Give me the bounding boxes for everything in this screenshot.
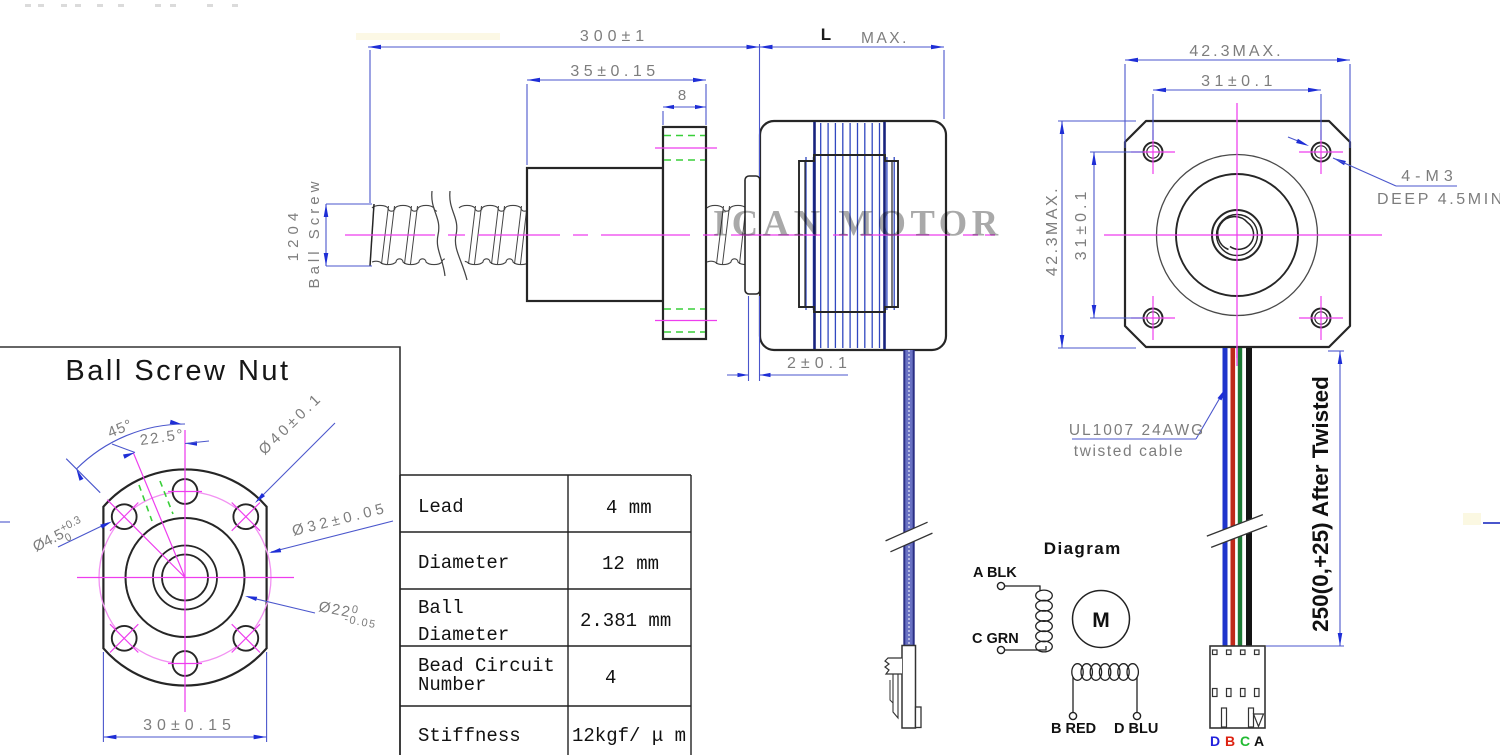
svg-text:12 mm: 12 mm <box>602 553 659 575</box>
wire A to coil <box>1005 586 1041 591</box>
dimension L MAX line <box>760 46 945 48</box>
nut hole tick top <box>168 491 202 493</box>
faint yellow blob right edge <box>1463 513 1481 525</box>
front view horizontal centerline <box>1104 234 1382 236</box>
terminal A <box>997 582 1004 589</box>
nut bolt hole upper-right <box>233 504 258 529</box>
dimension 250 line <box>1339 351 1341 646</box>
nut bolt hole lower-right <box>233 626 258 651</box>
wire B red <box>1231 348 1236 646</box>
mounting hole 2 <box>1312 143 1331 162</box>
shaft outer circle <box>1212 210 1262 260</box>
extension lines 42.3 top <box>1124 64 1126 148</box>
nut bolt hole bottom <box>173 651 198 676</box>
screw break symbol <box>433 187 469 284</box>
svg-text:Ball: Ball <box>418 597 464 619</box>
svg-text:300±1: 300±1 <box>580 28 649 45</box>
faint yellow band artifact <box>356 33 500 40</box>
svg-text:4 mm: 4 mm <box>606 497 652 519</box>
flange hole centerline bottom <box>655 320 717 322</box>
mounting hole 2 centermark <box>1299 151 1343 153</box>
motor winding hatch (blue lines) <box>805 157 807 310</box>
mounting hole 4 centermark <box>1299 317 1343 319</box>
svg-text:30±0.15: 30±0.15 <box>143 717 236 734</box>
nut hole X tick 135deg <box>110 503 138 531</box>
svg-text:4-M3: 4-M3 <box>1401 168 1457 185</box>
winding column right edge <box>883 122 886 349</box>
nut circle bore <box>162 555 208 601</box>
svg-text:Lead: Lead <box>418 496 464 518</box>
screw spiral in shaft <box>1218 217 1254 250</box>
connector mid pin slots <box>1213 689 1218 697</box>
leader dia32 <box>271 521 393 552</box>
extension line at motor face <box>759 44 761 177</box>
leader UL1007 <box>1072 438 1196 440</box>
dimension 250 extension top <box>1328 350 1344 352</box>
extension lines 31 left <box>1090 151 1143 153</box>
nut hole tick bottom <box>168 663 202 665</box>
svg-text:Diameter: Diameter <box>418 624 509 646</box>
terminal B <box>1069 712 1076 719</box>
horizontal coil B-D <box>1072 664 1083 681</box>
wire centerline stub <box>1236 348 1238 358</box>
dimension 30±0.15 line <box>103 736 266 738</box>
nut circle d22 <box>126 518 245 637</box>
svg-text:Ball Screw Nut: Ball Screw Nut <box>65 355 290 387</box>
wire D blue <box>1223 348 1228 646</box>
flange hole centerline top <box>655 147 717 149</box>
leader 4-M3 <box>1288 137 1303 143</box>
svg-text:250(0,+25) After Twisted: 250(0,+25) After Twisted <box>1308 376 1333 632</box>
mounting hole 3 <box>1144 309 1163 328</box>
terminal C <box>997 646 1004 653</box>
svg-text:Ball Screw: Ball Screw <box>306 178 323 289</box>
nut bolt hole top <box>173 479 198 504</box>
side cable break symbol <box>886 522 933 552</box>
dimension 31±0.1 top line <box>1153 89 1321 91</box>
svg-text:42.3MAX.: 42.3MAX. <box>1044 186 1061 276</box>
dimension 2±0.1 extension lines <box>748 296 750 381</box>
terminal D <box>1133 712 1140 719</box>
vertical coil A-C <box>1036 590 1053 601</box>
small connector latch <box>885 658 902 674</box>
dimension 250 extension bottom <box>1266 645 1344 647</box>
dimension 42.3MAX left line <box>1061 121 1063 348</box>
svg-text:A: A <box>1254 733 1264 749</box>
svg-text:Number: Number <box>418 674 486 696</box>
svg-text:2.381 mm: 2.381 mm <box>580 610 671 632</box>
mounting hole 3 centermark <box>1131 317 1175 319</box>
svg-text:2±0.1: 2±0.1 <box>787 355 852 372</box>
svg-text:1204: 1204 <box>285 208 302 261</box>
coil lead B <box>1072 677 1074 712</box>
motor front square (chamfered) <box>1125 121 1350 347</box>
front view vertical centerline <box>1236 103 1238 366</box>
leader dia40 <box>259 423 335 499</box>
stator inner line left <box>804 161 806 307</box>
ball screw thread right section (between flange and motor) <box>707 205 753 211</box>
svg-text:A BLK: A BLK <box>973 565 1017 581</box>
stator inner line right <box>891 161 893 307</box>
stator stepped outline <box>799 155 898 312</box>
connector polarity triangle <box>1254 714 1264 727</box>
connector prong left <box>1222 708 1227 727</box>
svg-text:31±0.1: 31±0.1 <box>1201 73 1277 90</box>
extension line motor right <box>943 50 945 119</box>
extension line thread top <box>326 203 372 205</box>
nut radial centerline 135deg <box>107 500 185 578</box>
nut bolt hole lower-left <box>112 626 137 651</box>
shaft ring circle <box>1217 215 1258 256</box>
motor circle M <box>1073 591 1130 648</box>
svg-text:Diameter: Diameter <box>418 552 509 574</box>
svg-text:Stiffness: Stiffness <box>418 725 521 747</box>
flange hole hidden lines top (green dashed) <box>664 135 705 137</box>
side cable (twisted pair) <box>904 350 915 646</box>
connector top pin slots <box>1213 650 1218 655</box>
extension lines 42.3 left <box>1058 120 1136 122</box>
detail box border <box>0 347 400 755</box>
nut hidden thread lines (green dashed) <box>139 485 152 521</box>
wire C to coil <box>1005 646 1047 650</box>
front pilot circle <box>1176 174 1298 296</box>
ball screw thread mid section <box>459 205 528 211</box>
svg-text:L: L <box>821 25 831 44</box>
svg-text:ICAN MOTOR: ICAN MOTOR <box>713 203 1003 244</box>
45deg extension radial <box>66 459 100 493</box>
svg-text:C GRN: C GRN <box>972 631 1019 647</box>
wire A black <box>1246 348 1252 646</box>
dimension 35±0.15 line <box>527 79 706 81</box>
extension line flange right <box>705 84 707 125</box>
watermark ICAN MOTOR <box>713 203 1003 244</box>
extension line thread bottom <box>326 265 372 267</box>
svg-text:twisted cable: twisted cable <box>1074 443 1184 460</box>
45deg arc <box>76 424 185 469</box>
extension line flange left <box>662 111 664 125</box>
centerline of side view <box>345 234 435 236</box>
dimension 1204 ball screw line <box>325 204 327 266</box>
svg-text:B RED: B RED <box>1051 721 1096 737</box>
extension line nut left <box>526 84 528 165</box>
nut hole X tick 225deg <box>110 624 138 652</box>
extension lines 31 top <box>1152 94 1154 140</box>
svg-text:35±0.15: 35±0.15 <box>570 63 659 80</box>
ball screw nut body <box>527 168 663 301</box>
faint artifact marks top-left <box>25 4 238 7</box>
svg-text:UL1007 24AWG: UL1007 24AWG <box>1069 422 1205 439</box>
nut outer flange outline <box>103 469 266 685</box>
svg-text:D: D <box>1210 733 1220 749</box>
dimension 300±1 line <box>368 46 760 48</box>
mounting hole 1 <box>1144 143 1163 162</box>
svg-text:31±0.1: 31±0.1 <box>1073 188 1090 261</box>
dimension 42.3MAX top line <box>1125 59 1350 61</box>
svg-text:Diagram: Diagram <box>1044 539 1122 558</box>
flange hole hidden lines bottom (green dashed) <box>664 308 705 310</box>
leader dia4.5 <box>58 523 108 547</box>
connector body <box>1210 646 1265 728</box>
svg-text:M: M <box>1092 609 1110 632</box>
dimension 2±0.1 arrows <box>727 374 749 376</box>
wire C green <box>1238 348 1242 646</box>
wires break symbol <box>1207 515 1267 548</box>
dimension 8 line <box>663 106 706 108</box>
ball screw thread left section <box>372 205 441 211</box>
coil lead D <box>1136 677 1138 712</box>
svg-text:42.3MAX.: 42.3MAX. <box>1189 43 1283 60</box>
svg-text:12kgf/ μ m: 12kgf/ μ m <box>572 725 686 747</box>
mounting hole 1 centermark <box>1131 151 1175 153</box>
svg-text:D BLU: D BLU <box>1114 721 1158 737</box>
leader dia22 <box>248 597 315 613</box>
stray blue line right edge <box>1483 522 1500 524</box>
22.5deg arrows <box>185 441 197 445</box>
nut hole X tick 45deg <box>232 503 260 531</box>
spec table grid <box>400 475 691 706</box>
nut horizontal centerline <box>77 577 294 579</box>
dimension 30±0.15 extensions <box>102 652 104 742</box>
nut circle mid <box>153 546 217 610</box>
mounting hole 4 <box>1312 309 1331 328</box>
front face outer circle <box>1157 155 1318 316</box>
svg-text:C: C <box>1240 733 1250 749</box>
nut vertical centerline <box>184 430 186 712</box>
dimension 31±0.1 left line <box>1093 152 1095 318</box>
extension line left of 300±1 <box>369 50 371 203</box>
winding column left edge <box>813 122 816 349</box>
svg-text:B: B <box>1225 733 1235 749</box>
nut hole X tick 315deg <box>232 624 260 652</box>
svg-text:DEEP 4.5MIN.: DEEP 4.5MIN. <box>1377 191 1500 208</box>
connector prong right <box>1249 708 1254 727</box>
screw left end edge <box>370 204 374 266</box>
nut 22.5deg centerline <box>133 453 185 578</box>
svg-text:4: 4 <box>605 667 616 689</box>
nut flange <box>663 127 706 339</box>
small connector body (side view) <box>902 646 916 729</box>
svg-text:MAX.: MAX. <box>861 30 909 47</box>
nut bolt circle (pink) <box>99 492 271 664</box>
svg-text:8: 8 <box>678 87 686 104</box>
motor pilot boss (side view) <box>745 176 760 294</box>
motor body side view <box>760 121 946 350</box>
nut bolt hole upper-left <box>112 504 137 529</box>
